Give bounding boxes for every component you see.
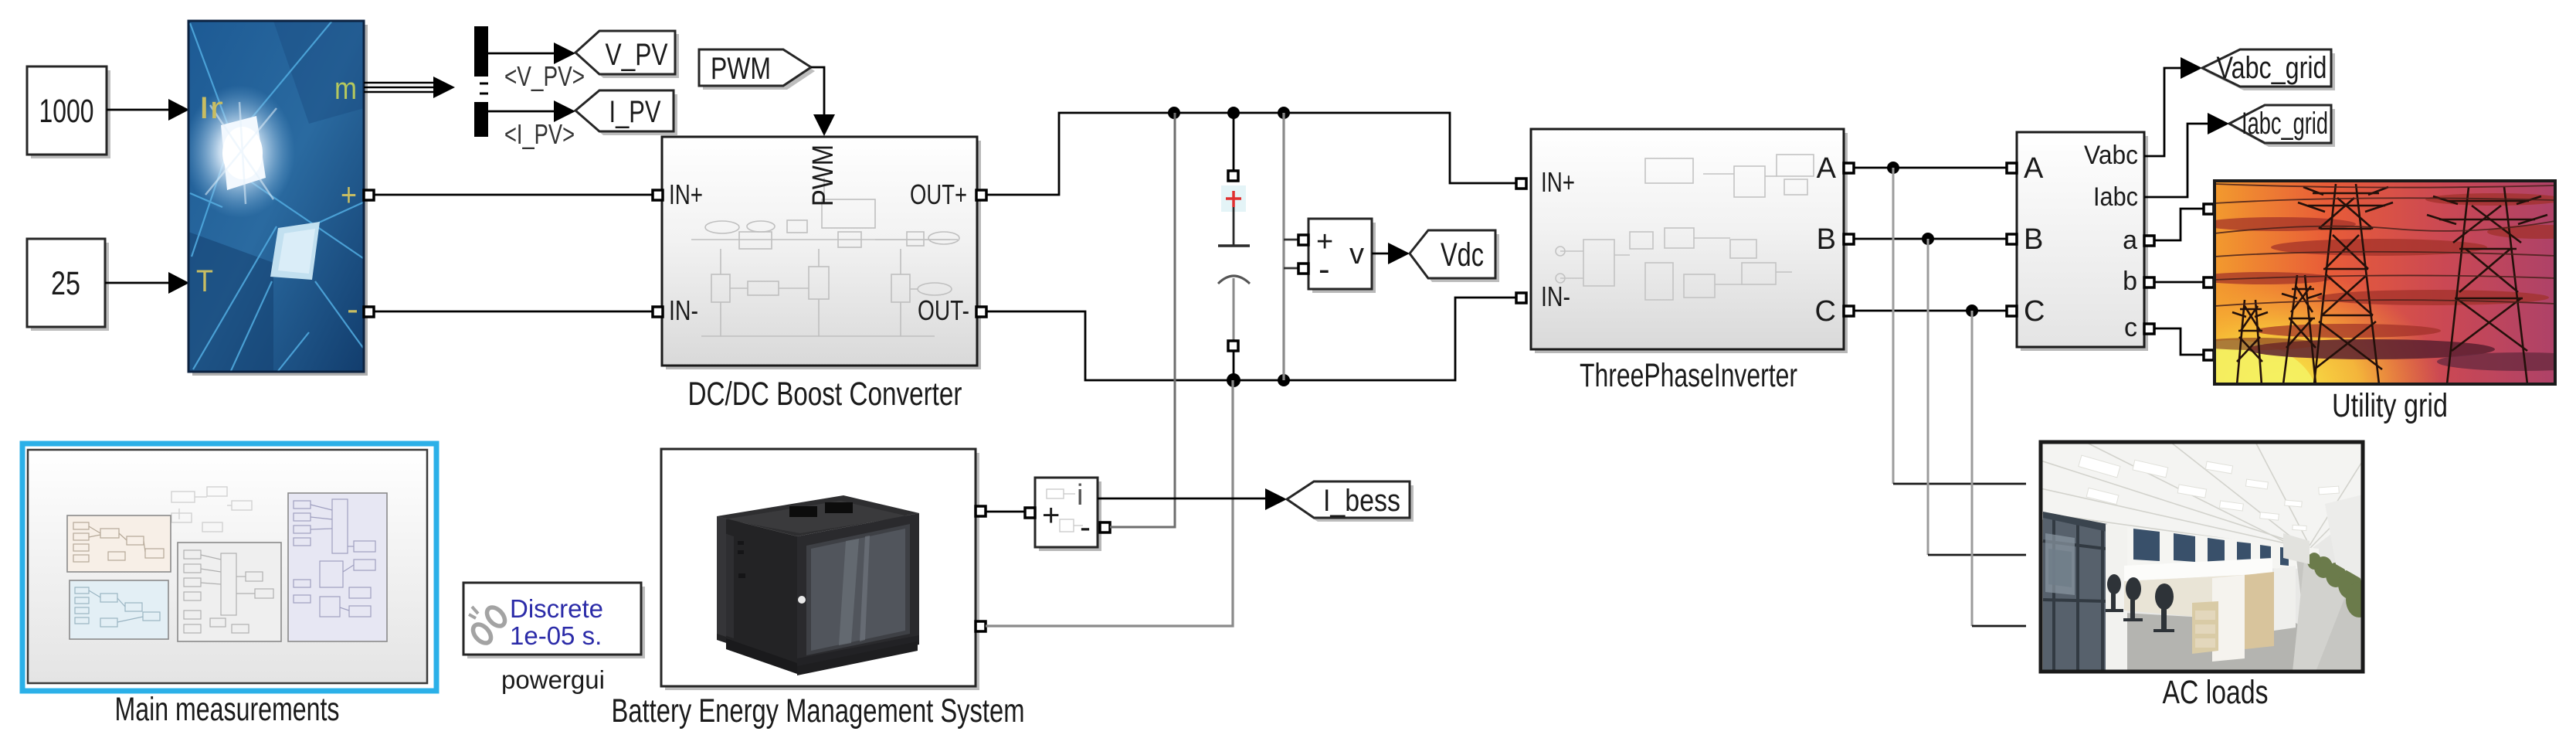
voltage measurement block V1 [1308, 219, 1376, 293]
svg-text:IN-: IN- [669, 294, 698, 326]
utility grid port a [2204, 204, 2214, 214]
svg-text:Vabc: Vabc [2084, 141, 2138, 170]
goto tag I_bess [1287, 481, 1414, 522]
measurement port B [2007, 234, 2017, 244]
utility grid port c [2204, 350, 2214, 360]
PV array block U1 [184, 21, 368, 376]
inverter port C [1844, 306, 1854, 316]
svg-text:<I_PV>: <I_PV> [504, 118, 575, 150]
svg-text:I_PV: I_PV [609, 95, 661, 129]
svg-text:B: B [1817, 223, 1836, 256]
wire bus selector to V_PV [488, 43, 575, 64]
svg-text:-: - [1319, 250, 1330, 288]
svg-text:C: C [1815, 295, 1836, 328]
wire i to I_bess tag [1098, 488, 1287, 510]
svg-text:PWM: PWM [711, 52, 771, 86]
node bottom rail junction 2 [1278, 374, 1290, 386]
svg-text:a: a [2123, 226, 2137, 255]
svg-text:ThreePhaseInverter: ThreePhaseInverter [1580, 357, 1797, 394]
DC/DC Boost Converter block [662, 137, 981, 369]
DC/DC port OUT- [976, 307, 986, 317]
wire PV- to IN- [374, 311, 653, 313]
wire phase B [1854, 238, 2007, 240]
measurement port c [2144, 324, 2154, 334]
node top rail junction 1 [1168, 107, 1180, 119]
AC loads image block [2041, 442, 2372, 672]
wire c to utility grid [2154, 328, 2204, 355]
svg-text:1000: 1000 [39, 93, 94, 130]
measurement port C [2007, 306, 2017, 316]
svg-text:A: A [2024, 152, 2044, 185]
wire battery - to DC bottom rail [986, 380, 1233, 626]
DC/DC port IN+ [653, 190, 663, 200]
node phase B junction [1922, 233, 1934, 245]
wire 25 to T [105, 272, 189, 294]
wire PV+ to IN+ [374, 194, 653, 196]
wire OUT+ to inverter IN+ via DC bus top rail [986, 113, 1516, 195]
svg-text:IN+: IN+ [669, 179, 703, 210]
svg-text:OUT+: OUT+ [910, 179, 967, 210]
wire Iabc to tag [2144, 113, 2229, 197]
constant block 1000 [27, 66, 110, 158]
wire v to Vdc tag [1372, 243, 1410, 264]
svg-text:Main measurements: Main measurements [115, 691, 340, 728]
svg-text:AC loads: AC loads [2163, 674, 2269, 711]
wire PWM to DC/DC converter [811, 67, 835, 136]
svg-text:C: C [2024, 295, 2045, 328]
node phase C junction [1966, 304, 1978, 317]
svg-text:DC/DC Boost Converter: DC/DC Boost Converter [688, 376, 962, 413]
utility grid image block [2116, 181, 2576, 502]
svg-text:i: i [1077, 479, 1083, 512]
wire bus selector to I_PV [488, 100, 575, 122]
Battery Energy Management System block [661, 449, 979, 690]
wire phase A [1854, 167, 2007, 169]
measurement port b [2144, 277, 2154, 287]
svg-text:m: m [334, 72, 357, 106]
wire 1000 to Ir [107, 99, 189, 121]
goto tag I_PV [575, 90, 677, 135]
svg-text:-: - [347, 291, 358, 327]
bus selector block [474, 26, 488, 137]
wire DC link to voltage measurement (vertical) [1284, 113, 1298, 380]
svg-text:IN-: IN- [1541, 281, 1570, 312]
wire OUT- to inverter IN- via DC bus bottom rail [986, 298, 1516, 380]
PV port + [364, 190, 374, 200]
svg-text:Vdc: Vdc [1441, 236, 1484, 274]
svg-text:IN+: IN+ [1541, 166, 1575, 198]
svg-text:Iabc: Iabc [2093, 182, 2138, 212]
svg-text:I_bess: I_bess [1323, 484, 1400, 518]
wire phase C [1854, 310, 2007, 312]
svg-text:Vabc_grid: Vabc_grid [2217, 51, 2327, 85]
svg-text:-: - [1080, 509, 1091, 545]
inverter port IN- [1516, 293, 1526, 303]
voltage measurement port - [1298, 264, 1308, 274]
svg-text:c: c [2124, 313, 2137, 342]
svg-text:PWM: PWM [807, 145, 840, 206]
node bottom rail junction 1 [1227, 373, 1240, 387]
wire phase A to AC loads [1893, 168, 2026, 484]
measurement port a [2144, 236, 2154, 246]
goto tag Vabc_grid [2202, 49, 2335, 90]
battery port + [976, 506, 986, 516]
current measurement port + [1025, 508, 1035, 518]
svg-text:B: B [2024, 223, 2043, 256]
svg-text:Iabc_grid: Iabc_grid [2242, 107, 2328, 141]
svg-text:1e-05 s.: 1e-05 s. [510, 621, 602, 650]
svg-text:v: v [1349, 238, 1364, 270]
svg-text:V_PV: V_PV [606, 38, 668, 72]
svg-text:Utility grid: Utility grid [2332, 387, 2448, 424]
svg-text:25: 25 [51, 265, 80, 302]
DC/DC port OUT+ [976, 190, 986, 200]
wire a to utility grid [2154, 209, 2204, 240]
svg-text:<V_PV>: <V_PV> [504, 60, 585, 92]
inverter port B [1844, 234, 1854, 244]
svg-text:OUT-: OUT- [918, 294, 969, 326]
wire Vabc to tag [2144, 57, 2202, 156]
voltage measurement port + [1298, 235, 1308, 245]
wire phase C to AC loads [1972, 311, 2026, 626]
svg-text:+: + [341, 176, 357, 213]
svg-text:T: T [196, 264, 213, 298]
current measurement port - [1100, 522, 1110, 532]
wire battery + to current measurement [986, 511, 1025, 513]
from tag PWM [699, 49, 815, 90]
constant block 25 [27, 239, 109, 331]
svg-text:A: A [1817, 152, 1837, 185]
svg-text:+: + [1042, 498, 1060, 532]
goto tag V_PV [575, 31, 679, 78]
current measurement block I1 [1035, 478, 1101, 551]
PV port - [364, 307, 374, 317]
wire b to utility grid [2154, 281, 2204, 284]
utility grid port b [2204, 277, 2214, 287]
goto tag Vdc [1410, 230, 1499, 282]
wire current measurement - to DC top rail [1110, 113, 1175, 527]
inverter port A [1844, 163, 1854, 173]
capacitor C1 branch [1218, 113, 1250, 380]
powergui block [463, 583, 645, 658]
node phase A junction [1887, 162, 1899, 174]
three-phase measurement subsystem [2017, 132, 2148, 351]
DC/DC port IN- [653, 307, 663, 317]
goto tag Iabc_grid [2229, 105, 2335, 147]
node top rail junction 3 [1278, 107, 1290, 119]
measurement port A [2007, 163, 2017, 173]
svg-text:Ir: Ir [199, 91, 223, 125]
wire phase B to AC loads [1928, 239, 2026, 555]
bus wire m [364, 77, 455, 98]
svg-text:Battery Energy Management Syst: Battery Energy Management System [612, 692, 1025, 730]
ThreePhaseInverter block [1531, 129, 1848, 353]
svg-text:powergui: powergui [501, 665, 605, 694]
battery port - [976, 621, 986, 631]
inverter port IN+ [1516, 179, 1526, 189]
svg-text:Discrete: Discrete [510, 594, 603, 623]
Main measurements subsystem (selected) [22, 444, 436, 691]
svg-text:b: b [2123, 267, 2137, 296]
node top rail junction 2 [1227, 107, 1240, 119]
